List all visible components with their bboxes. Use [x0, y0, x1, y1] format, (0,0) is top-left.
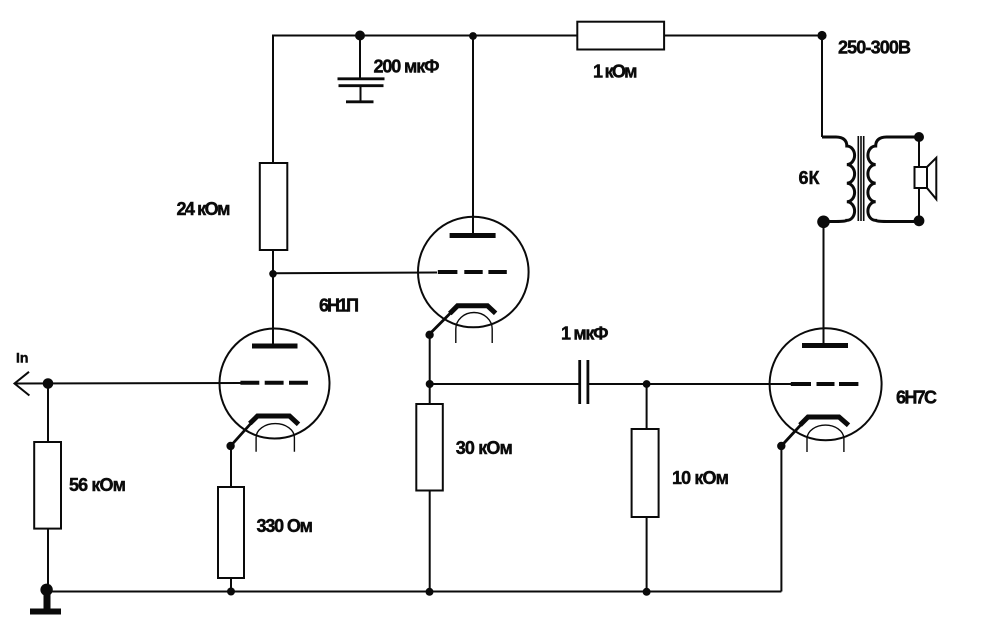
wire V1 cathode down	[230, 446, 232, 487]
wire V3 cathode riser	[780, 446, 782, 592]
svg-text:6Н7С: 6Н7С	[896, 387, 937, 407]
resistor R 56 kOm	[34, 442, 61, 529]
node rail dot 330	[227, 588, 235, 596]
wire V2 cathode lead	[430, 311, 453, 335]
node rail dot 30k	[426, 588, 434, 596]
resistor R 10 kOm	[632, 429, 659, 517]
resistor R 330 Om	[218, 487, 244, 578]
node V1 cathode dot	[226, 442, 234, 450]
wire V3 cathode lead	[781, 423, 803, 447]
wire coupling right	[588, 383, 647, 385]
speaker LS1	[915, 158, 937, 199]
ground symbol	[30, 590, 61, 612]
wire V3 plate lead	[823, 222, 825, 346]
transformer T1 primary winding	[822, 137, 855, 222]
svg-text:1 мкФ: 1 мкФ	[561, 324, 609, 344]
svg-text:In: In	[16, 350, 28, 366]
svg-text:30 кОм: 30 кОм	[456, 438, 513, 458]
ground node dot	[40, 584, 52, 596]
tube V1 cathode	[250, 416, 299, 424]
wire 330 Om bottom	[230, 578, 232, 592]
wire V2 cathode down	[429, 334, 431, 384]
svg-text:6К: 6К	[799, 168, 821, 188]
node rail dot 10k	[643, 588, 651, 596]
wire V1 cathode lead	[231, 421, 254, 447]
node junction dot 250-300V	[817, 31, 826, 40]
tube V3 cathode	[800, 417, 849, 425]
resistor R 1 kOm	[577, 22, 664, 50]
svg-text:6Н1П: 6Н1П	[319, 296, 359, 316]
wire to V2 grid	[273, 272, 437, 275]
wire B+ drop to transformer	[821, 36, 823, 138]
tube V3 grid dashes	[791, 382, 859, 386]
svg-text:24 кОм: 24 кОм	[177, 199, 231, 219]
wire 24 kOm top lead	[272, 36, 274, 164]
tube V2 cathode	[450, 306, 496, 314]
capacitor C 200 mkF	[338, 36, 385, 102]
wire 30 kOm bottom	[429, 491, 431, 592]
wire down to 30 kOm	[429, 384, 431, 404]
tube V1 grid dashes	[240, 381, 308, 385]
node T1 secondary top dot	[914, 132, 924, 142]
wire bottom rail	[47, 591, 781, 593]
tube V2 grid dashes	[438, 270, 507, 274]
resistor R 30 kOm	[416, 404, 443, 491]
svg-text:250-300В: 250-300В	[838, 38, 911, 58]
wire speaker top	[918, 137, 920, 167]
wire 24 kOm bottom to V1 plate	[272, 250, 274, 346]
tube V2 heater	[456, 313, 492, 344]
svg-text:1 кОм: 1 кОм	[593, 62, 638, 82]
node T1 primary bottom dot	[817, 216, 830, 229]
wire down to 10 kOm	[646, 384, 648, 429]
wire to V3 grid	[647, 383, 791, 385]
node junction dot plate lead V2	[469, 32, 477, 40]
capacitor C 1 mkF	[580, 360, 588, 404]
svg-text:330 Ом: 330 Ом	[257, 516, 314, 536]
wire top rail left segment	[272, 35, 578, 37]
wire top rail right segment	[664, 35, 822, 37]
tube V3 envelope (6N7S)	[770, 328, 882, 440]
node T1 secondary bottom dot	[914, 215, 925, 226]
tube V2 anode	[450, 233, 496, 238]
input arrow	[15, 372, 30, 396]
node junction dot coupling	[426, 380, 434, 388]
wire 56 kOm to ground rail	[47, 529, 49, 592]
wire V2 plate lead	[472, 36, 474, 236]
tube V1 anode	[252, 344, 298, 349]
node junction dot grid feed	[269, 270, 277, 278]
wire coupling left	[430, 383, 580, 385]
tube V3 heater	[807, 425, 844, 452]
svg-text:200 мкФ: 200 мкФ	[374, 57, 440, 77]
svg-text:56 кОм: 56 кОм	[69, 475, 126, 495]
node input dot	[43, 378, 54, 389]
tube V1 heater	[256, 424, 294, 452]
transformer T1 secondary winding	[868, 137, 919, 222]
node V2 cathode dot	[425, 331, 433, 339]
node junction dot V3 grid	[643, 380, 651, 388]
resistor R 24 kOm	[260, 163, 288, 250]
wire input to V1 grid	[15, 382, 242, 385]
tube V1 envelope (6N1P section a)	[220, 329, 330, 439]
wire 10 kOm bottom	[646, 517, 648, 592]
svg-text:10 кОм: 10 кОм	[672, 468, 729, 488]
node V3 cathode dot	[777, 442, 785, 450]
tube V2 envelope (6N1P section b)	[418, 217, 529, 328]
wire speaker bottom	[918, 188, 920, 221]
transformer T1 core	[858, 136, 863, 221]
wire input down	[47, 384, 49, 443]
node junction dot top cap	[355, 31, 365, 41]
tube V3 anode	[802, 343, 848, 348]
